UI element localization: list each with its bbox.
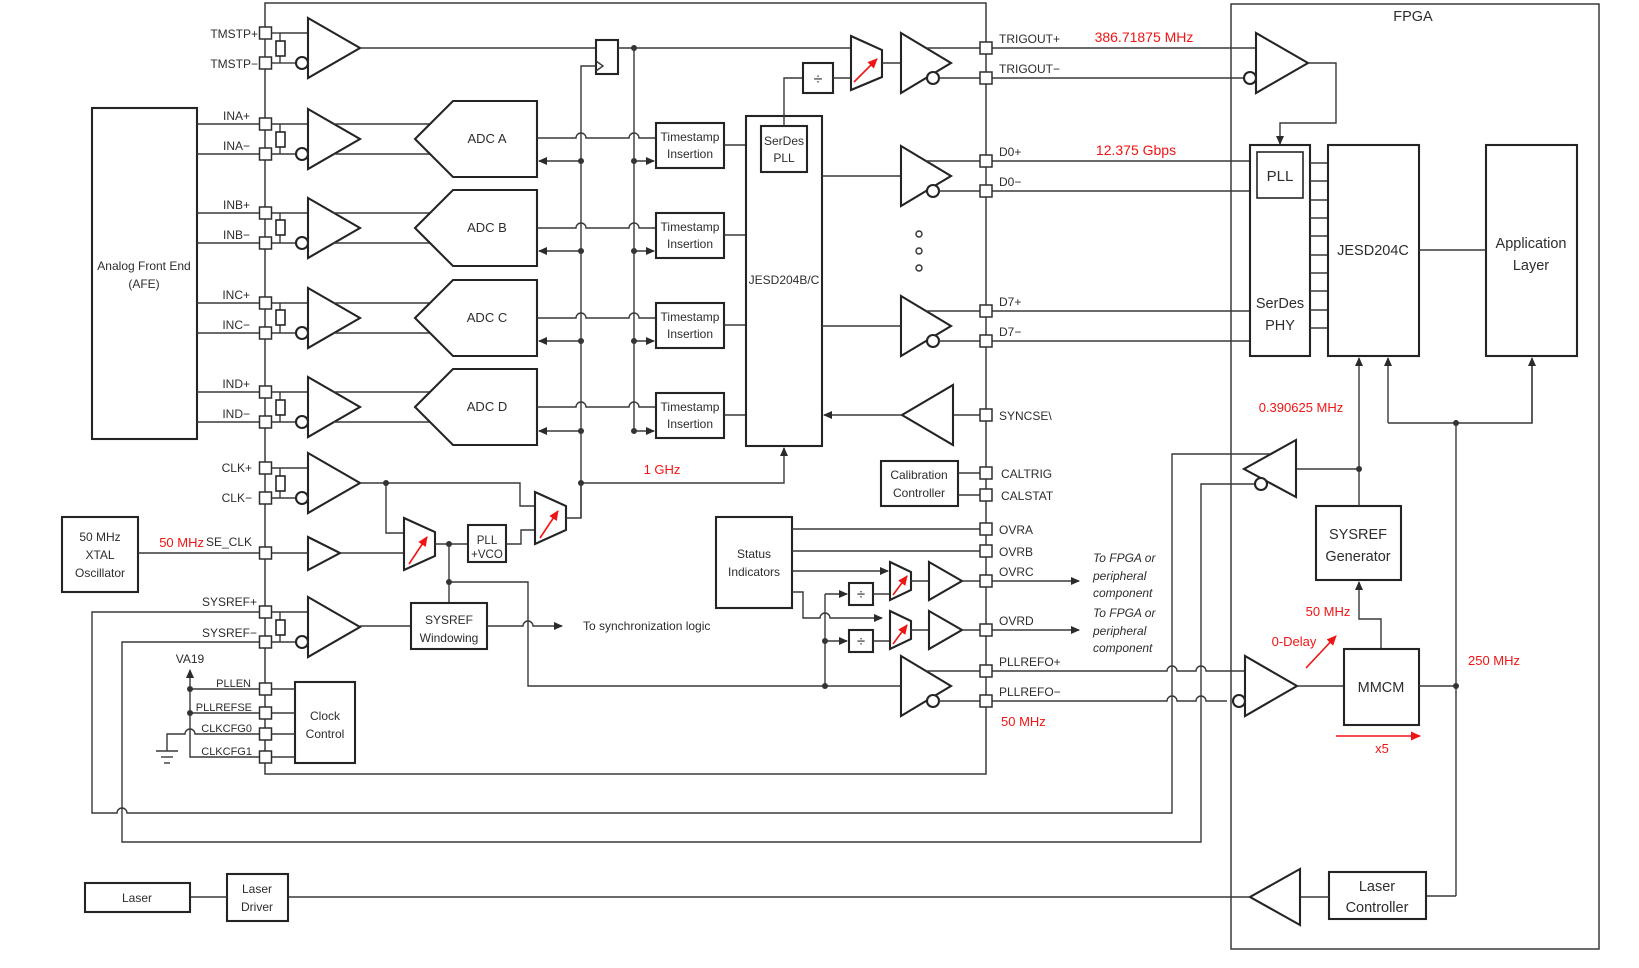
- Analog Front End (AFE) box: [92, 108, 197, 439]
- wire SYSREF+ to buffer: [271, 611, 308, 613]
- wire FF clock from 1 GHz line: [581, 66, 596, 161]
- svg-text:Laser: Laser: [242, 882, 272, 896]
- svg-text:peripheral: peripheral: [1092, 624, 1147, 638]
- wire FPGA trigger to PLL (arrow): [1280, 63, 1336, 144]
- node clock junction C: [578, 338, 584, 344]
- svg-text:TMSTP−: TMSTP−: [210, 57, 258, 71]
- lane ellipsis dots: [916, 231, 922, 237]
- node strobe junction D: [631, 428, 637, 434]
- pin CALTRIG: [980, 467, 992, 479]
- svg-text:INC−: INC−: [222, 318, 250, 332]
- pin PLLREFO+: [980, 665, 992, 677]
- svg-text:VA19: VA19: [176, 652, 205, 666]
- wire PLLREFSE to Clock Control: [271, 712, 295, 714]
- wire clock arrow into ADC A: [539, 160, 581, 162]
- svg-text:PLL: PLL: [773, 151, 795, 165]
- svg-text:ADC A: ADC A: [467, 131, 506, 146]
- wire buffer B to ADC B diff pair: [333, 212, 431, 214]
- node divider feed mid: [822, 638, 828, 644]
- svg-text:PLL: PLL: [1267, 168, 1294, 185]
- svg-text:IND−: IND−: [222, 407, 250, 421]
- svg-text:Generator: Generator: [1325, 549, 1390, 565]
- wire D0+ to SerDes PHY: [992, 160, 1250, 162]
- svg-text:PLLREFO−: PLLREFO−: [999, 685, 1061, 699]
- wire AFE INA+: [197, 123, 260, 125]
- pin OVRD: [980, 624, 992, 636]
- svg-text:SYSREF+: SYSREF+: [202, 595, 257, 609]
- wire AFE IND+: [197, 391, 260, 393]
- wire D0- to pin: [939, 190, 981, 192]
- svg-text:TRIGOUT+: TRIGOUT+: [999, 32, 1060, 46]
- svg-text:CALTRIG: CALTRIG: [1001, 467, 1052, 481]
- VA19 supply arrow: [189, 670, 191, 713]
- PLL+VCO box: [468, 525, 506, 562]
- mux1 reference select: [404, 518, 435, 570]
- wire buffer C to ADC C diff pair: [333, 302, 431, 304]
- node strobe junction B: [631, 248, 637, 254]
- wire 1 GHz line into JESD bottom: [581, 448, 784, 483]
- Laser Driver box: [227, 874, 288, 921]
- wire TRIGOUT+ to FPGA buffer: [992, 47, 1256, 49]
- wire to Laser Driver: [288, 896, 1250, 898]
- svg-text:component: component: [1093, 586, 1153, 600]
- PLL box in FPGA: [1257, 152, 1303, 198]
- svg-text:INA−: INA−: [223, 139, 250, 153]
- svg-text:JESD204C: JESD204C: [1337, 243, 1409, 259]
- pin PLLREFO-: [980, 695, 992, 707]
- JESD204B/C box: [746, 116, 822, 446]
- buffer SYSREF return driver: [1244, 440, 1296, 497]
- SYSREF Windowing box: [411, 603, 487, 649]
- divider C: [849, 583, 873, 605]
- svg-text:Timestamp: Timestamp: [661, 400, 720, 414]
- svg-text:SerDes: SerDes: [1256, 296, 1304, 312]
- wire TMSTP+ to buffer: [280, 32, 308, 34]
- wire JESD to D0 buffer: [822, 175, 901, 177]
- wire clock arrow into ADC C: [539, 340, 581, 342]
- pin INA-: [260, 148, 272, 160]
- wire PLLREFO+ to pin: [926, 670, 981, 672]
- wire divider feed spine: [824, 594, 826, 686]
- pin CALSTAT: [980, 489, 992, 501]
- wire FF output to trigger mux: [618, 47, 851, 49]
- wire INC- to buffer bubble: [271, 332, 296, 334]
- buffer SE_CLK: [308, 537, 340, 570]
- wire OVRD external arrow: [992, 629, 1079, 631]
- wire ADC B output to timestamp (hops): [537, 223, 656, 228]
- buffer INC (diff input buffer): [308, 288, 360, 348]
- svg-text:peripheral: peripheral: [1092, 569, 1147, 583]
- node 250MHz junction: [1453, 683, 1459, 689]
- wire AFE INB+: [197, 212, 260, 214]
- TMSTP termination resistor: [271, 32, 280, 34]
- pin TMSTP-: [260, 57, 272, 69]
- svg-text:CLK−: CLK−: [222, 491, 252, 505]
- node strobe junction A: [631, 158, 637, 164]
- wire clock arrow into ADC B: [539, 250, 581, 252]
- node strobe junction C: [631, 338, 637, 344]
- wire D7- to SerDes PHY: [992, 340, 1250, 342]
- wire IND+ to buffer: [271, 391, 308, 393]
- wire INB+ to buffer: [271, 212, 308, 214]
- Application Layer box: [1486, 145, 1577, 356]
- svg-text:Insertion: Insertion: [667, 417, 713, 431]
- Timestamp Insertion A box: [656, 123, 724, 168]
- svg-text:JESD204B/C: JESD204B/C: [749, 273, 820, 287]
- svg-text:Controller: Controller: [893, 486, 945, 500]
- svg-text:PLL: PLL: [477, 535, 498, 547]
- svg-text:Timestamp: Timestamp: [661, 310, 720, 324]
- Calibration Controller box: [881, 461, 958, 506]
- svg-text:Calibration: Calibration: [890, 468, 947, 482]
- node 1 GHz junction: [578, 480, 584, 486]
- svg-text:÷: ÷: [857, 586, 865, 603]
- buffer D0 (diff output driver): [901, 146, 951, 206]
- wire TRIGOUT- to pin: [939, 77, 981, 79]
- pin TRIGOUT-: [980, 72, 992, 84]
- wire divider D to mux: [873, 640, 890, 642]
- node MMCM rail junction: [1453, 420, 1459, 426]
- ADC A: [415, 101, 537, 177]
- 50 MHz XTAL Oscillator box: [62, 517, 138, 592]
- ground: [156, 750, 178, 752]
- buffer TMSTP (diff input buffer): [308, 18, 360, 78]
- wire INA- to buffer bubble: [271, 153, 296, 155]
- wire PLLREFO- to FPGA (hops): [992, 696, 1227, 701]
- pin PLLREFSE: [260, 707, 272, 719]
- wire CALSTAT: [958, 494, 981, 496]
- wire PLLREFO receiver to MMCM: [1297, 685, 1344, 687]
- pin CLK+: [260, 462, 272, 474]
- wire buffer D to ADC D diff pair: [333, 391, 431, 393]
- svg-text:XTAL: XTAL: [85, 548, 114, 562]
- pin TRIGOUT+: [980, 42, 992, 54]
- INA termination resistor: [279, 124, 281, 132]
- node FF output junction: [631, 45, 637, 51]
- svg-text:ADC D: ADC D: [467, 399, 507, 414]
- wire ADC D output to timestamp (hops): [537, 402, 656, 407]
- svg-text:+VCO: +VCO: [471, 549, 503, 561]
- wire MMCM out 250MHz: [1419, 685, 1456, 687]
- wire SYSREF buffer to windowing box: [360, 625, 411, 627]
- INB termination resistor: [279, 213, 281, 220]
- svg-text:INA+: INA+: [223, 109, 250, 123]
- wire Timestamp B to JESD: [724, 234, 746, 236]
- wire MMCM 250MHz vertical: [1455, 423, 1457, 896]
- svg-text:Analog Front End: Analog Front End: [97, 259, 190, 273]
- wire IND- to buffer bubble: [271, 421, 296, 423]
- svg-text:Application: Application: [1496, 236, 1567, 252]
- svg-text:PLLEN: PLLEN: [216, 678, 251, 690]
- pin D7+: [980, 305, 992, 317]
- svg-text:÷: ÷: [857, 633, 865, 650]
- wire arrow into divider C: [825, 593, 847, 595]
- node PLLREFSE tie: [187, 710, 193, 716]
- wire OVRB: [792, 550, 981, 552]
- Clock Control box: [295, 682, 355, 763]
- svg-text:12.375 Gbps: 12.375 Gbps: [1096, 142, 1176, 158]
- svg-text:50 MHz: 50 MHz: [79, 530, 120, 544]
- svg-text:50 MHz: 50 MHz: [1306, 604, 1351, 619]
- pin IND-: [260, 416, 272, 428]
- wire AFE INC-: [197, 332, 260, 334]
- wire JESD204C to Application Layer: [1419, 249, 1486, 251]
- SerDes PHY box: [1250, 145, 1310, 356]
- wire Laser to Laser Driver: [190, 896, 227, 898]
- svg-text:CLKCFG0: CLKCFG0: [201, 723, 252, 735]
- wire SYSREF windowing feed: [448, 544, 450, 603]
- wire CLKCFG0 to ground (hop): [167, 729, 260, 751]
- buffer IND (diff input buffer): [308, 377, 360, 437]
- bus PHY to JESD204C: [1310, 163, 1328, 328]
- svg-text:386.71875 MHz: 386.71875 MHz: [1095, 29, 1194, 45]
- pin CLKCFG0: [260, 728, 272, 740]
- svg-text:Insertion: Insertion: [667, 237, 713, 251]
- buffer laser driver output: [1250, 869, 1300, 925]
- mux2 clock select: [535, 492, 566, 544]
- node divider feed bottom: [822, 683, 828, 689]
- wire 250MHz to Laser Controller: [1426, 895, 1456, 897]
- wire SYSREF gen top: [1358, 469, 1360, 506]
- svg-text:To FPGA or: To FPGA or: [1093, 551, 1156, 565]
- wire TRIGOUT+ to pin: [926, 47, 981, 49]
- wire PLLREFSE tie: [190, 712, 260, 714]
- mux trigger out: [851, 36, 882, 90]
- svg-text:D7−: D7−: [999, 325, 1021, 339]
- wire OVRD to pin: [962, 629, 981, 631]
- wire timestamp strobe arrow into Timestamp A: [634, 160, 654, 162]
- buffer PLLREFO (diff output driver): [901, 656, 951, 716]
- pin OVRC: [980, 575, 992, 587]
- wire CLK buffer out to mux2 top input: [360, 483, 535, 506]
- wire XTAL to SE_CLK pin: [138, 552, 260, 554]
- wire clock arrow into ADC D: [539, 430, 581, 432]
- svg-text:Insertion: Insertion: [667, 327, 713, 341]
- svg-text:To FPGA or: To FPGA or: [1093, 606, 1156, 620]
- pin SYNCSE: [980, 409, 992, 421]
- wire INA+ to buffer: [271, 123, 308, 125]
- CLK termination resistor: [279, 468, 281, 476]
- divider (trigger): [803, 63, 833, 93]
- mux OVRC: [890, 562, 911, 600]
- pin IND+: [260, 386, 272, 398]
- wire OVRC to pin: [962, 580, 981, 582]
- SYSREF Generator box: [1316, 506, 1401, 580]
- pin PLLEN: [260, 683, 272, 695]
- svg-text:SYNCSE\: SYNCSE\: [999, 409, 1052, 423]
- Status Indicators box: [716, 517, 792, 608]
- node CLK branch: [383, 480, 389, 486]
- node SYSREF distribution: [1356, 466, 1362, 472]
- 0-Delay red arrow: [1306, 636, 1336, 668]
- wire CALTRIG: [958, 472, 981, 474]
- wire mux to OVRC driver: [911, 580, 929, 582]
- wire 1GHz vertical clock spine: [580, 161, 582, 518]
- svg-text:Controller: Controller: [1346, 900, 1409, 916]
- FPGA boundary: [1231, 4, 1599, 949]
- svg-text:SYSREF: SYSREF: [1329, 527, 1387, 543]
- svg-text:PLLREFSE: PLLREFSE: [196, 702, 252, 714]
- buffer SYSREF (diff input buffer): [308, 597, 360, 657]
- x5 red arrow: [1336, 735, 1420, 737]
- ADC D: [415, 369, 537, 445]
- wire MMCM to SYSREF gen (arrow): [1359, 582, 1381, 649]
- node PLLEN tie: [187, 686, 193, 692]
- svg-text:0-Delay: 0-Delay: [1272, 634, 1317, 649]
- svg-text:component: component: [1093, 641, 1153, 655]
- wire mux1 out to PLL+VCO: [435, 543, 468, 545]
- svg-text:SYSREF: SYSREF: [425, 613, 473, 627]
- svg-text:TRIGOUT−: TRIGOUT−: [999, 62, 1060, 76]
- wire mux2 out to 1GHz spine: [566, 483, 581, 518]
- wire AFE IND-: [197, 421, 260, 423]
- svg-text:Clock: Clock: [310, 709, 341, 723]
- svg-text:SerDes: SerDes: [764, 134, 804, 148]
- wire VA19 rail down to CLKCFG1: [190, 713, 260, 757]
- wire SYNCSE arrow into JESD: [824, 414, 902, 416]
- pin TMSTP+: [260, 27, 272, 39]
- wire SYSREF- to buffer bubble: [271, 641, 296, 643]
- SYSREF termination resistor: [279, 612, 281, 620]
- pin INA+: [260, 118, 272, 130]
- svg-text:D0−: D0−: [999, 175, 1021, 189]
- buffer TRIGOUT (diff output driver): [901, 33, 951, 93]
- svg-text:D0+: D0+: [999, 145, 1021, 159]
- svg-text:Control: Control: [306, 727, 345, 741]
- JESD204C box: [1328, 145, 1419, 356]
- svg-text:50 MHz: 50 MHz: [159, 535, 204, 550]
- wire buffer A to ADC A diff pair: [333, 123, 431, 125]
- node clock junction D: [578, 428, 584, 434]
- wire PLLREFO+ to FPGA (hops): [992, 666, 1245, 671]
- wire CLKCFG0 to Clock Control: [271, 733, 295, 735]
- svg-text:MMCM: MMCM: [1358, 680, 1405, 696]
- buffer CLK (diff input buffer): [308, 453, 360, 513]
- wire timestamp vertical spine: [633, 48, 635, 431]
- svg-text:CALSTAT: CALSTAT: [1001, 489, 1054, 503]
- wire SYSREF+ return path: [92, 454, 1272, 813]
- wire timestamp strobe arrow into Timestamp C: [634, 340, 654, 342]
- wire CLK branch to mux1 top input: [386, 483, 404, 533]
- buffer OVRC: [929, 562, 962, 600]
- svg-text:INB+: INB+: [223, 198, 250, 212]
- buffer INA (diff input buffer): [308, 109, 360, 169]
- wire SE_CLK buffer to mux1 bottom input: [340, 552, 404, 554]
- pin INB+: [260, 207, 272, 219]
- wire Timestamp C to JESD: [724, 324, 746, 326]
- wire D7- to pin: [939, 340, 981, 342]
- wire divider to trigger mux: [833, 77, 851, 79]
- Timestamp Insertion D box: [656, 393, 724, 438]
- svg-text:SE_CLK: SE_CLK: [206, 535, 252, 549]
- svg-text:INC+: INC+: [222, 288, 250, 302]
- buffer OVRD: [929, 611, 962, 649]
- Laser Controller box: [1329, 872, 1426, 919]
- svg-text:Oscillator: Oscillator: [75, 566, 125, 580]
- node clock junction B: [578, 248, 584, 254]
- wire D7+ to pin: [926, 310, 981, 312]
- Laser box: [85, 883, 190, 912]
- wire AFE INB-: [197, 242, 260, 244]
- pin INC-: [260, 327, 272, 339]
- pin INB-: [260, 237, 272, 249]
- svg-text:CLKCFG1: CLKCFG1: [201, 746, 252, 758]
- svg-text:Timestamp: Timestamp: [661, 130, 720, 144]
- buffer FPGA trigger input: [1256, 33, 1308, 93]
- wire Laser Controller to buffer: [1300, 896, 1329, 898]
- wire AFE INA-: [197, 153, 260, 155]
- svg-text:Insertion: Insertion: [667, 147, 713, 161]
- svg-text:Timestamp: Timestamp: [661, 220, 720, 234]
- buffer PLLREFO receiver in FPGA: [1245, 656, 1297, 716]
- wire D0+ to pin: [926, 160, 981, 162]
- pin D7-: [980, 335, 992, 347]
- pin SYSREF+: [260, 606, 272, 618]
- wire Timestamp D to JESD: [724, 414, 746, 416]
- pin INC+: [260, 297, 272, 309]
- svg-text:D7+: D7+: [999, 295, 1021, 309]
- pin CLKCFG1: [260, 751, 272, 763]
- wire trigger mux to TRIGOUT buffer: [882, 62, 901, 64]
- wire SYSREF gen up to JESD204C (arrow): [1358, 358, 1360, 469]
- wire AFE INC+: [197, 302, 260, 304]
- svg-text:÷: ÷: [814, 71, 823, 88]
- wire CLKCFG1 to Clock Control: [271, 756, 295, 758]
- divider D: [849, 630, 873, 652]
- svg-text:1 GHz: 1 GHz: [644, 462, 681, 477]
- svg-text:IND+: IND+: [222, 377, 250, 391]
- pin D0-: [980, 185, 992, 197]
- wire SYNCSE pin to buffer: [953, 414, 981, 416]
- wire INB- to buffer bubble: [271, 242, 296, 244]
- wire timestamp strobe arrow into Timestamp B: [634, 250, 654, 252]
- svg-text:OVRB: OVRB: [999, 545, 1033, 559]
- wire SYSREF- return path: [122, 484, 1255, 842]
- svg-text:PLLREFO+: PLLREFO+: [999, 655, 1061, 669]
- svg-text:0.390625 MHz: 0.390625 MHz: [1259, 400, 1344, 415]
- wire PLLEN to Clock Control: [271, 688, 295, 690]
- wire Timestamp A to JESD: [724, 144, 746, 146]
- svg-text:Status: Status: [737, 547, 771, 561]
- node windowing feed branch: [446, 579, 452, 585]
- mux OVRD: [890, 611, 911, 649]
- wire SE_CLK pin to buffer: [271, 552, 308, 554]
- wire CLK- to buffer bubble: [271, 497, 296, 499]
- svg-text:To synchronization logic: To synchronization logic: [583, 619, 710, 633]
- wire PLL+VCO out to mux2 bottom input: [506, 530, 535, 544]
- svg-text:OVRD: OVRD: [999, 614, 1034, 628]
- wire divider C to mux: [873, 593, 890, 595]
- wire CLK+ to buffer: [271, 467, 308, 469]
- wire timestamp strobe arrow into Timestamp D: [634, 430, 654, 432]
- svg-text:TMSTP+: TMSTP+: [210, 27, 258, 41]
- svg-text:250 MHz: 250 MHz: [1468, 653, 1520, 668]
- wire TMSTP buffer output to flip-flop: [360, 47, 596, 49]
- wire OVRA: [792, 528, 981, 530]
- svg-text:OVRC: OVRC: [999, 565, 1034, 579]
- pin D0+: [980, 155, 992, 167]
- ADC chip boundary: [265, 3, 986, 774]
- wire PLLREFO- to pin: [939, 700, 981, 702]
- wire windowing out to sync logic (hop): [487, 621, 562, 626]
- wire TMSTP- to buffer bubble: [280, 62, 296, 64]
- svg-text:SYSREF−: SYSREF−: [202, 626, 257, 640]
- buffer D7 (diff output driver): [901, 296, 951, 356]
- wire status to OVRC mux: [792, 570, 888, 572]
- svg-text:(AFE): (AFE): [128, 277, 159, 291]
- pin CLK-: [260, 492, 272, 504]
- svg-text:Layer: Layer: [1513, 258, 1549, 274]
